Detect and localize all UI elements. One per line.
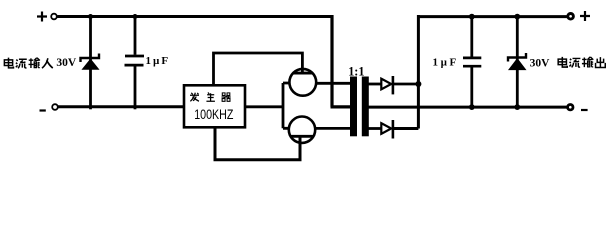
capacitor C2 plates — [463, 58, 481, 66]
capacitor C1 plates — [125, 56, 145, 65]
junction nub zener bottom — [89, 107, 92, 110]
output terminal bottom-right — [568, 105, 573, 110]
input terminal top-left — [51, 14, 57, 20]
input terminal bottom-left — [52, 104, 58, 110]
wire D4 cathode to junction riser — [394, 15, 418, 129]
transformer T1 primary bar — [350, 77, 357, 137]
wire secondary center tap / bottom output rail — [368, 106, 567, 109]
generator box U1 — [184, 85, 245, 127]
junction dot capacitor top-right — [469, 14, 475, 20]
svg-text:1:1: 1:1 — [348, 63, 364, 78]
wire secondary bottom to diode D4 — [368, 127, 381, 130]
plus terminal marker top-right — [580, 11, 590, 21]
zener diode D1 symbol — [81, 54, 100, 70]
label 30V 电流输出 — [530, 57, 606, 69]
wire top-left rail — [58, 15, 333, 18]
transistor Q1 — [289, 69, 316, 96]
zener diode D2 symbol — [508, 53, 526, 70]
wire bottom-left rail — [58, 105, 184, 108]
wire secondary top to diode D3 — [368, 83, 381, 86]
minus terminal marker bottom-left — [40, 109, 46, 111]
svg-text:1µF: 1µF — [146, 55, 171, 67]
wire top-right rail — [417, 15, 567, 18]
diode D4 — [381, 120, 393, 139]
wire Q1 collector to transformer — [316, 82, 350, 85]
svg-text:1µF: 1µF — [433, 56, 459, 68]
wire Q2 collector to transformer — [315, 127, 350, 130]
junction dot capacitor bottom-right — [469, 104, 475, 110]
zener diode D1 (input) wire — [89, 17, 92, 107]
wire box bottom loop to Q2 — [215, 127, 300, 159]
minus terminal marker bottom-right — [581, 109, 588, 111]
junction nub capacitor bottom — [134, 107, 137, 110]
svg-text:30V: 30V — [530, 57, 551, 69]
junction dot zener top-right — [514, 14, 520, 20]
wire box right lead — [245, 105, 283, 108]
wire D3 cathode to junction — [394, 83, 418, 86]
wire box top lead to Q1 base — [214, 53, 303, 85]
output terminal top-right — [568, 13, 574, 19]
zener diode D2 (output) wire — [516, 17, 519, 108]
capacitor C2 wires — [470, 17, 473, 108]
capacitor C1 wires — [134, 17, 137, 107]
junction dot at zener top — [88, 14, 93, 19]
diode D3 — [381, 76, 393, 94]
svg-text:30V: 30V — [56, 57, 77, 69]
junction dot zener bottom-right — [514, 104, 520, 110]
junction dot diode outputs — [415, 81, 421, 87]
wire top rail drop to transformer center tap — [331, 15, 351, 107]
svg-text:100KHZ: 100KHZ — [194, 106, 234, 122]
label 发生器 — [190, 93, 231, 102]
junction dot at capacitor top — [133, 14, 138, 19]
label 电流输入 30V — [4, 57, 77, 69]
transistor Q2 — [289, 117, 315, 143]
plus terminal marker top-left — [37, 12, 47, 22]
wire junction vertical to Q1/Q2 emitters — [283, 83, 290, 128]
transformer T1 secondary bar — [362, 77, 369, 137]
